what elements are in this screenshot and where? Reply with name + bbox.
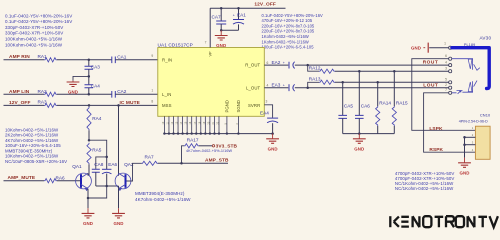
svg-text:220uF-16V-+20%-8x7.0-105: 220uF-16V-+20%-8x7.0-105 xyxy=(262,23,315,28)
svg-text:100uF-16V-+20%-6-5.4-105: 100uF-16V-+20%-6-5.4-105 xyxy=(262,45,315,50)
op-amp U1 body (UA1 CD1517CP) xyxy=(158,48,264,117)
wire RA3 to IC pin 8 xyxy=(57,104,158,106)
wire RA13 to jack pin 5 xyxy=(335,81,449,83)
node 3V3_STB xyxy=(212,145,214,147)
resistor RA12 xyxy=(319,69,335,73)
svg-text:330pF-0402-X7R-+10%-50V: 330pF-0402-X7R-+10%-50V xyxy=(5,25,63,30)
svg-text:RA6: RA6 xyxy=(56,175,66,180)
svg-text:RA14: RA14 xyxy=(379,101,391,106)
wire CA2 to IC pin 1 xyxy=(116,93,158,95)
capacitor CA7 xyxy=(220,8,222,21)
capacitor EA3 xyxy=(288,84,290,91)
svg-text:CA6: CA6 xyxy=(361,104,371,109)
svg-text:R_OUT: R_OUT xyxy=(245,63,260,68)
svg-text:8: 8 xyxy=(151,100,153,104)
svg-text:CN10: CN10 xyxy=(480,113,491,118)
svg-text:UA1 CD1517CP: UA1 CD1517CP xyxy=(158,42,193,47)
wire branch to RA12 xyxy=(308,65,319,71)
jack plug symbol upper xyxy=(452,59,473,70)
node CA3 top xyxy=(88,59,91,62)
svg-text:CA8: CA8 xyxy=(94,162,104,167)
svg-text:SVRR: SVRR xyxy=(248,103,260,108)
capacitor CA5 xyxy=(342,82,344,115)
wire L_OUT pin 4 xyxy=(264,87,288,89)
wire RA1 to CA1 xyxy=(57,59,112,61)
svg-text:GND: GND xyxy=(411,45,421,50)
svg-text:RA7: RA7 xyxy=(145,154,155,159)
svg-text:SGND: SGND xyxy=(236,100,241,112)
jack plug symbol lower xyxy=(452,81,473,93)
svg-text:CA4: CA4 xyxy=(91,83,101,88)
svg-text:CA5: CA5 xyxy=(344,104,354,109)
wire RA5 to QA1 collector xyxy=(88,164,90,175)
wire branch to RA13 xyxy=(308,82,319,87)
wire QA2 base to RA7 xyxy=(127,163,142,181)
svg-text:4: 4 xyxy=(445,60,447,64)
svg-text:CA1: CA1 xyxy=(117,54,127,59)
svg-text:R_IN: R_IN xyxy=(162,57,172,62)
wire AMP_MUTE left xyxy=(4,180,45,182)
wire RA17 to 3V3_STB xyxy=(199,145,212,147)
svg-text:CA2: CA2 xyxy=(117,89,127,94)
svg-text:NC/10uF-0805-X5R-+20%-16V: NC/10uF-0805-X5R-+20%-16V xyxy=(5,159,67,164)
wire RA17 branch xyxy=(182,146,185,164)
ground GND (QA2) xyxy=(118,208,120,213)
svg-text:0.1uF-0402-Y5V-+80%-20%-16V: 0.1uF-0402-Y5V-+80%-20%-16V xyxy=(262,13,324,18)
svg-text:7: 7 xyxy=(445,88,447,92)
wire filter ground rail xyxy=(343,133,395,135)
resistor RA6 xyxy=(44,179,57,183)
capacitor CA8 xyxy=(96,157,107,169)
svg-text:QA1: QA1 xyxy=(72,164,82,169)
svg-text:6: 6 xyxy=(266,61,268,65)
svg-text:EA2: EA2 xyxy=(272,60,281,65)
svg-text:0.1uF-0402-Y5V-+80%-20%-16V: 0.1uF-0402-Y5V-+80%-20%-16V xyxy=(5,19,72,24)
ground GND (QA1) xyxy=(87,208,89,213)
svg-text:ROUT: ROUT xyxy=(423,60,439,66)
svg-text:1Kohm-0402-+5%-1/16W: 1Kohm-0402-+5%-1/16W xyxy=(262,39,309,44)
svg-text:L_IN: L_IN xyxy=(162,92,171,97)
svg-text:RA4: RA4 xyxy=(92,116,102,121)
svg-text:EA6: EA6 xyxy=(108,162,117,167)
capacitor CA2 xyxy=(112,91,116,98)
capacitor CA6 xyxy=(358,71,360,115)
wire EA1 to CA7 bottom xyxy=(221,29,238,31)
svg-text:GND: GND xyxy=(216,43,226,48)
resistor RA14 xyxy=(377,82,379,106)
wire CA1 to IC pin 9 xyxy=(116,59,158,61)
svg-text:12V_OFF: 12V_OFF xyxy=(254,2,276,8)
svg-text:1: 1 xyxy=(151,89,153,93)
capacitor CA1 xyxy=(112,57,116,64)
wire SVRR pin 3 xyxy=(264,105,272,118)
transistor QA1 xyxy=(76,173,92,189)
capacitor CA3 xyxy=(88,60,90,66)
svg-text:2: 2 xyxy=(445,83,447,87)
svg-text:+: + xyxy=(233,14,235,18)
svg-text:NC/1Kohm-0402-+5%-1/16W: NC/1Kohm-0402-+5%-1/16W xyxy=(395,186,454,191)
svg-text:LSPK: LSPK xyxy=(429,126,443,132)
ground GND (filter) xyxy=(358,134,360,139)
wire GND to jack pin 1 xyxy=(429,47,448,49)
connector CN10 body xyxy=(475,126,490,159)
svg-text:6: 6 xyxy=(445,54,447,58)
svg-text:GND: GND xyxy=(268,146,278,151)
wire EA2 to ROUT line xyxy=(295,64,449,66)
wire node to caps xyxy=(89,140,107,157)
svg-text:GND: GND xyxy=(113,221,123,226)
capacitor EA6 xyxy=(106,157,108,169)
svg-text:330pF-0402-X7R-+10%-50V: 330pF-0402-X7R-+10%-50V xyxy=(5,31,63,36)
capacitor EA1 xyxy=(238,8,240,19)
svg-text:RSPK: RSPK xyxy=(429,147,443,153)
wire R_OUT pin 6 xyxy=(264,64,288,66)
svg-text:4K7ohm-0402-+5%-1/16W: 4K7ohm-0402-+5%-1/16W xyxy=(186,149,232,153)
svg-text:3: 3 xyxy=(445,67,447,71)
svg-text:MMBT3904(E-350MHz): MMBT3904(E-350MHz) xyxy=(5,148,53,153)
svg-text:9: 9 xyxy=(151,54,153,58)
svg-text:AV30: AV30 xyxy=(480,35,492,40)
wire ground bus xyxy=(164,133,272,135)
svg-text:VP: VP xyxy=(208,51,212,57)
svg-text:5: 5 xyxy=(445,78,447,82)
wire CN10 gnd pins xyxy=(464,137,466,157)
resistor RA2 xyxy=(44,92,57,96)
capacitor CA4 xyxy=(85,85,94,88)
svg-text:100Kohm-0402-+5%-1/16W: 100Kohm-0402-+5%-1/16W xyxy=(5,42,63,47)
wire RA6 to QA1 base xyxy=(57,180,81,182)
wire CA3 to CA4 xyxy=(88,69,90,84)
resistor RA13 xyxy=(319,80,335,84)
svg-text:GND: GND xyxy=(459,170,469,175)
svg-text:LOUT: LOUT xyxy=(423,82,438,88)
svg-text:RA5: RA5 xyxy=(92,148,102,153)
svg-text:PGND: PGND xyxy=(224,100,229,112)
svg-text:4K7ohm-0402-+5%-1/16W: 4K7ohm-0402-+5%-1/16W xyxy=(5,138,59,143)
svg-text:3: 3 xyxy=(265,99,267,103)
wire caps bottom rail xyxy=(96,185,119,187)
wire jack pin 6 to LSPK xyxy=(412,59,476,131)
svg-text:100Kohm-0402-+5%-1/16W: 100Kohm-0402-+5%-1/16W xyxy=(5,37,63,42)
wire caps to QA1 emitter xyxy=(88,186,107,198)
svg-text:GND: GND xyxy=(354,146,364,151)
svg-text:0.1uF-0402-Y5V-+80%-20%-16V: 0.1uF-0402-Y5V-+80%-20%-16V xyxy=(5,13,72,18)
svg-text:7: 7 xyxy=(205,40,207,44)
svg-text:RA3: RA3 xyxy=(38,99,48,104)
svg-text:10Kohm-0402-+5%-1/16W: 10Kohm-0402-+5%-1/16W xyxy=(5,127,59,132)
svg-text:1: 1 xyxy=(444,41,446,45)
wire EA3 to LOUT line xyxy=(295,87,449,89)
wire AMP LIN left xyxy=(4,93,45,95)
transistor QA2 xyxy=(115,173,131,189)
svg-text:RA1: RA1 xyxy=(38,54,48,59)
wire RA2 to CA2 xyxy=(57,93,112,95)
ground GND (CN10) xyxy=(464,158,466,163)
ground GND (EA4) xyxy=(272,134,274,139)
svg-text:4PIN-2.54-D-96-D: 4PIN-2.54-D-96-D xyxy=(459,119,488,123)
wire QA1 emitter down xyxy=(87,189,89,208)
svg-text:RA12: RA12 xyxy=(309,65,321,70)
svg-text:MSS: MSS xyxy=(162,103,172,108)
resistor RA4 xyxy=(87,107,91,131)
svg-text:4: 4 xyxy=(266,84,268,88)
ground GND (CA7/EA1) xyxy=(220,30,222,35)
thick bus wire (jack sleeve) xyxy=(452,48,489,89)
logo KENOTRONTV xyxy=(389,216,391,227)
IC bottom pin stubs xyxy=(163,116,165,133)
wire QA1 collector up xyxy=(87,173,89,175)
svg-text:MMBT3904(E-350MHz): MMBT3904(E-350MHz) xyxy=(135,191,185,196)
svg-text:RA2: RA2 xyxy=(38,89,48,94)
resistor RA5 xyxy=(87,143,91,164)
wire VP pin 7 xyxy=(209,8,211,47)
wire IC MUTE to QA2 collector xyxy=(118,105,120,175)
svg-text:EA1: EA1 xyxy=(237,13,246,18)
svg-text:1Kohm-0402-+5%-1/16W: 1Kohm-0402-+5%-1/16W xyxy=(262,34,309,39)
svg-text:EA3: EA3 xyxy=(272,83,281,88)
wire AMP RIN left xyxy=(4,59,45,61)
svg-text:+: + xyxy=(283,61,285,65)
resistor RA15 xyxy=(393,71,395,106)
connector PL189 pin circles xyxy=(449,46,452,49)
svg-text:10Kohm-0402-+5%-1/16W: 10Kohm-0402-+5%-1/16W xyxy=(5,154,59,159)
wire RA12 to jack pin 3 xyxy=(335,70,449,72)
svg-text:RA15: RA15 xyxy=(396,101,408,106)
wire RA4 bottom node xyxy=(88,130,90,140)
wire QA2 emitter down xyxy=(118,189,120,208)
wire to GND tap xyxy=(73,76,89,80)
svg-text:RA17: RA17 xyxy=(187,138,199,143)
wire AMP_STB xyxy=(158,162,228,164)
svg-text:CA7: CA7 xyxy=(212,14,222,19)
resistor RA17 xyxy=(184,144,199,148)
resistor RA1 xyxy=(44,58,57,62)
svg-text:EA4: EA4 xyxy=(260,110,269,115)
svg-text:+: + xyxy=(283,84,285,88)
svg-text:470uF-16V-+20%-8-12 105: 470uF-16V-+20%-8-12 105 xyxy=(262,18,313,23)
wire jack pin 2 to RSPK xyxy=(424,93,476,152)
svg-text:AMP_STB: AMP_STB xyxy=(205,158,229,164)
CN10 pin stubs xyxy=(465,136,476,138)
ground GND (CA3/CA4) xyxy=(72,81,74,82)
svg-text:GND: GND xyxy=(83,221,93,226)
capacitor EA4 xyxy=(267,117,278,119)
svg-text:L_OUT: L_OUT xyxy=(246,86,261,91)
svg-text:100uF-16V-+20%-6-5.4-105: 100uF-16V-+20%-6-5.4-105 xyxy=(5,143,61,148)
svg-text:220uF-16V-+20%-8x7.0-105: 220uF-16V-+20%-8x7.0-105 xyxy=(262,29,315,34)
svg-text:RA13: RA13 xyxy=(309,77,321,82)
svg-text:2K2ohm-0402-+5%-1/16W: 2K2ohm-0402-+5%-1/16W xyxy=(5,133,59,138)
wire 12V_OFF top xyxy=(210,7,285,9)
wire 12V_OFF left xyxy=(4,104,45,106)
capacitor EA2 xyxy=(288,62,290,69)
svg-text:IC MUTE: IC MUTE xyxy=(120,100,141,106)
resistor RA7 xyxy=(142,161,158,165)
svg-text:CA3: CA3 xyxy=(91,64,101,69)
svg-text:4K7ohm-0402-+5%-1/16W: 4K7ohm-0402-+5%-1/16W xyxy=(135,197,191,202)
resistor RA3 xyxy=(44,103,57,107)
